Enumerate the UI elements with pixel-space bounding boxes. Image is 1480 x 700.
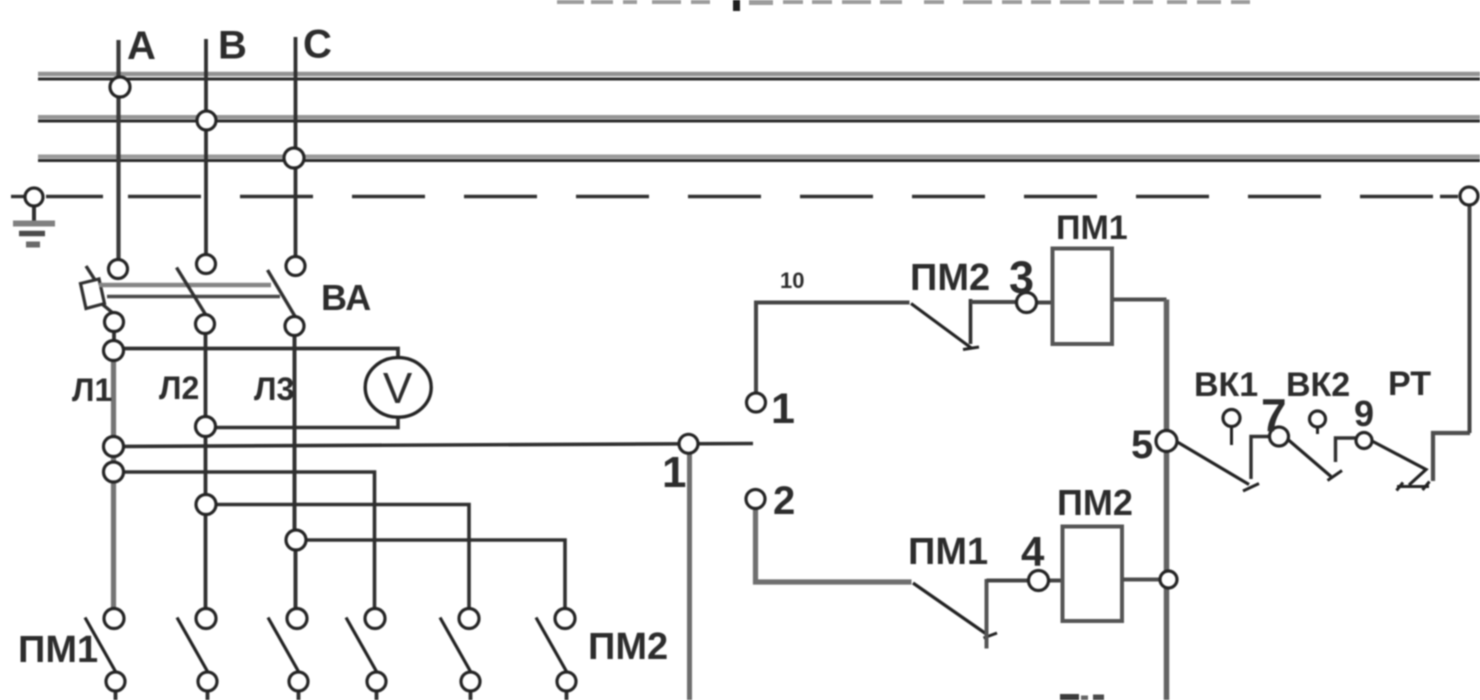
svg-text:10: 10 xyxy=(780,268,804,293)
svg-text:Л3: Л3 xyxy=(254,371,294,407)
svg-text:9: 9 xyxy=(1354,393,1374,434)
svg-text:1: 1 xyxy=(771,385,795,433)
svg-text:5: 5 xyxy=(1131,423,1153,467)
svg-text:V: V xyxy=(383,364,413,413)
svg-text:ПМ1: ПМ1 xyxy=(1056,209,1128,247)
svg-text:ВК2: ВК2 xyxy=(1286,366,1350,404)
svg-text:ПМ1: ПМ1 xyxy=(18,629,98,671)
svg-text:Л2: Л2 xyxy=(159,370,199,406)
svg-text:ВА: ВА xyxy=(321,277,371,318)
svg-text:4: 4 xyxy=(1021,528,1045,575)
svg-text:Л1: Л1 xyxy=(72,372,112,408)
svg-text:1: 1 xyxy=(662,448,686,497)
svg-text:ПМ2: ПМ2 xyxy=(1057,482,1133,523)
svg-text:РТ: РТ xyxy=(1388,365,1431,403)
svg-text:ПМ2: ПМ2 xyxy=(588,626,668,668)
svg-text:7: 7 xyxy=(1261,389,1287,441)
svg-text:A: A xyxy=(127,24,156,68)
svg-text:3: 3 xyxy=(1009,252,1034,303)
svg-text:ПМ1: ПМ1 xyxy=(908,531,988,573)
svg-text:B: B xyxy=(218,24,247,68)
svg-text:ПМ2: ПМ2 xyxy=(910,257,990,299)
svg-text:C: C xyxy=(303,23,332,67)
svg-text:2: 2 xyxy=(773,479,795,523)
svg-text:ВК1: ВК1 xyxy=(1194,366,1258,404)
